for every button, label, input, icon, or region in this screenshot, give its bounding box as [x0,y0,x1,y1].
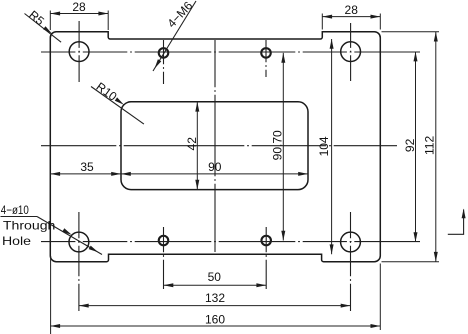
hole bottom-left Ø10 [69,232,89,252]
label 4-M6 with leader [153,0,196,71]
dimension 92 [403,52,417,242]
hole top-right Ø10 [341,42,361,62]
radius label R5 with leader [25,8,62,43]
dimension 42 [185,102,199,190]
centerline vertical hole bottom-left / ext 132 [78,212,80,311]
svg-text:92: 92 [403,138,417,152]
dimension 104 [317,39,333,254]
hole bottom-left M6 [159,236,169,246]
centerline vertical M6 bottom-right / ext 50 [265,227,267,289]
dimension 90 [121,160,308,176]
centerline horizontal top holes [41,51,420,53]
centerline horizontal bottom holes [41,241,420,243]
svg-text:112: 112 [422,136,436,155]
svg-text:50: 50 [208,270,222,284]
centerline vertical M6 top-left [163,40,165,84]
svg-text:28: 28 [72,0,86,14]
dimension 132 [79,291,351,308]
centerline horizontal slot [41,145,397,147]
dimension 35 [50,160,121,176]
svg-text:160: 160 [205,313,225,327]
svg-text:104: 104 [317,136,331,156]
svg-text:35: 35 [80,160,94,174]
dimension 28 top-right [322,3,380,29]
centerline vertical slot [214,40,216,252]
dimension 160 [50,256,380,334]
hole top-left Ø10 [69,42,89,62]
centerline vertical M6 bottom-left / ext 50 [163,227,165,289]
centerline vertical hole top-right [350,23,352,81]
dimension 50 [164,270,267,288]
svg-text:90.70: 90.70 [271,130,285,160]
plate outline [50,32,380,262]
svg-text:28: 28 [345,3,359,17]
hole top-left M6 [159,48,169,58]
view direction arrow (bottom-right) [448,209,466,235]
dimension 112 [382,32,440,262]
svg-text:Hole: Hole [2,234,31,248]
svg-text:42: 42 [185,137,199,151]
svg-text:R5: R5 [26,8,47,29]
dimension 90.70 [271,53,286,241]
svg-text:4−M6: 4−M6 [164,0,195,30]
centerline vertical hole bottom-right / ext 132 [350,212,352,311]
centerline vertical M6 top-right [265,40,267,77]
svg-text:4−ø10: 4−ø10 [1,203,29,217]
hole bottom-right M6 [261,236,271,246]
centerline vertical hole top-left [78,21,80,82]
svg-text:90: 90 [208,160,222,174]
svg-text:Through: Through [3,219,56,233]
slot (rounded rectangle R10) [121,102,308,190]
label 4-Ø10 Through Hole with leader [1,203,103,254]
hole top-right M6 [261,48,271,58]
dimension 28 top-left [50,0,108,30]
hole bottom-right Ø10 [341,232,361,252]
svg-text:132: 132 [205,291,225,305]
radius label R10 with leader [91,80,144,125]
